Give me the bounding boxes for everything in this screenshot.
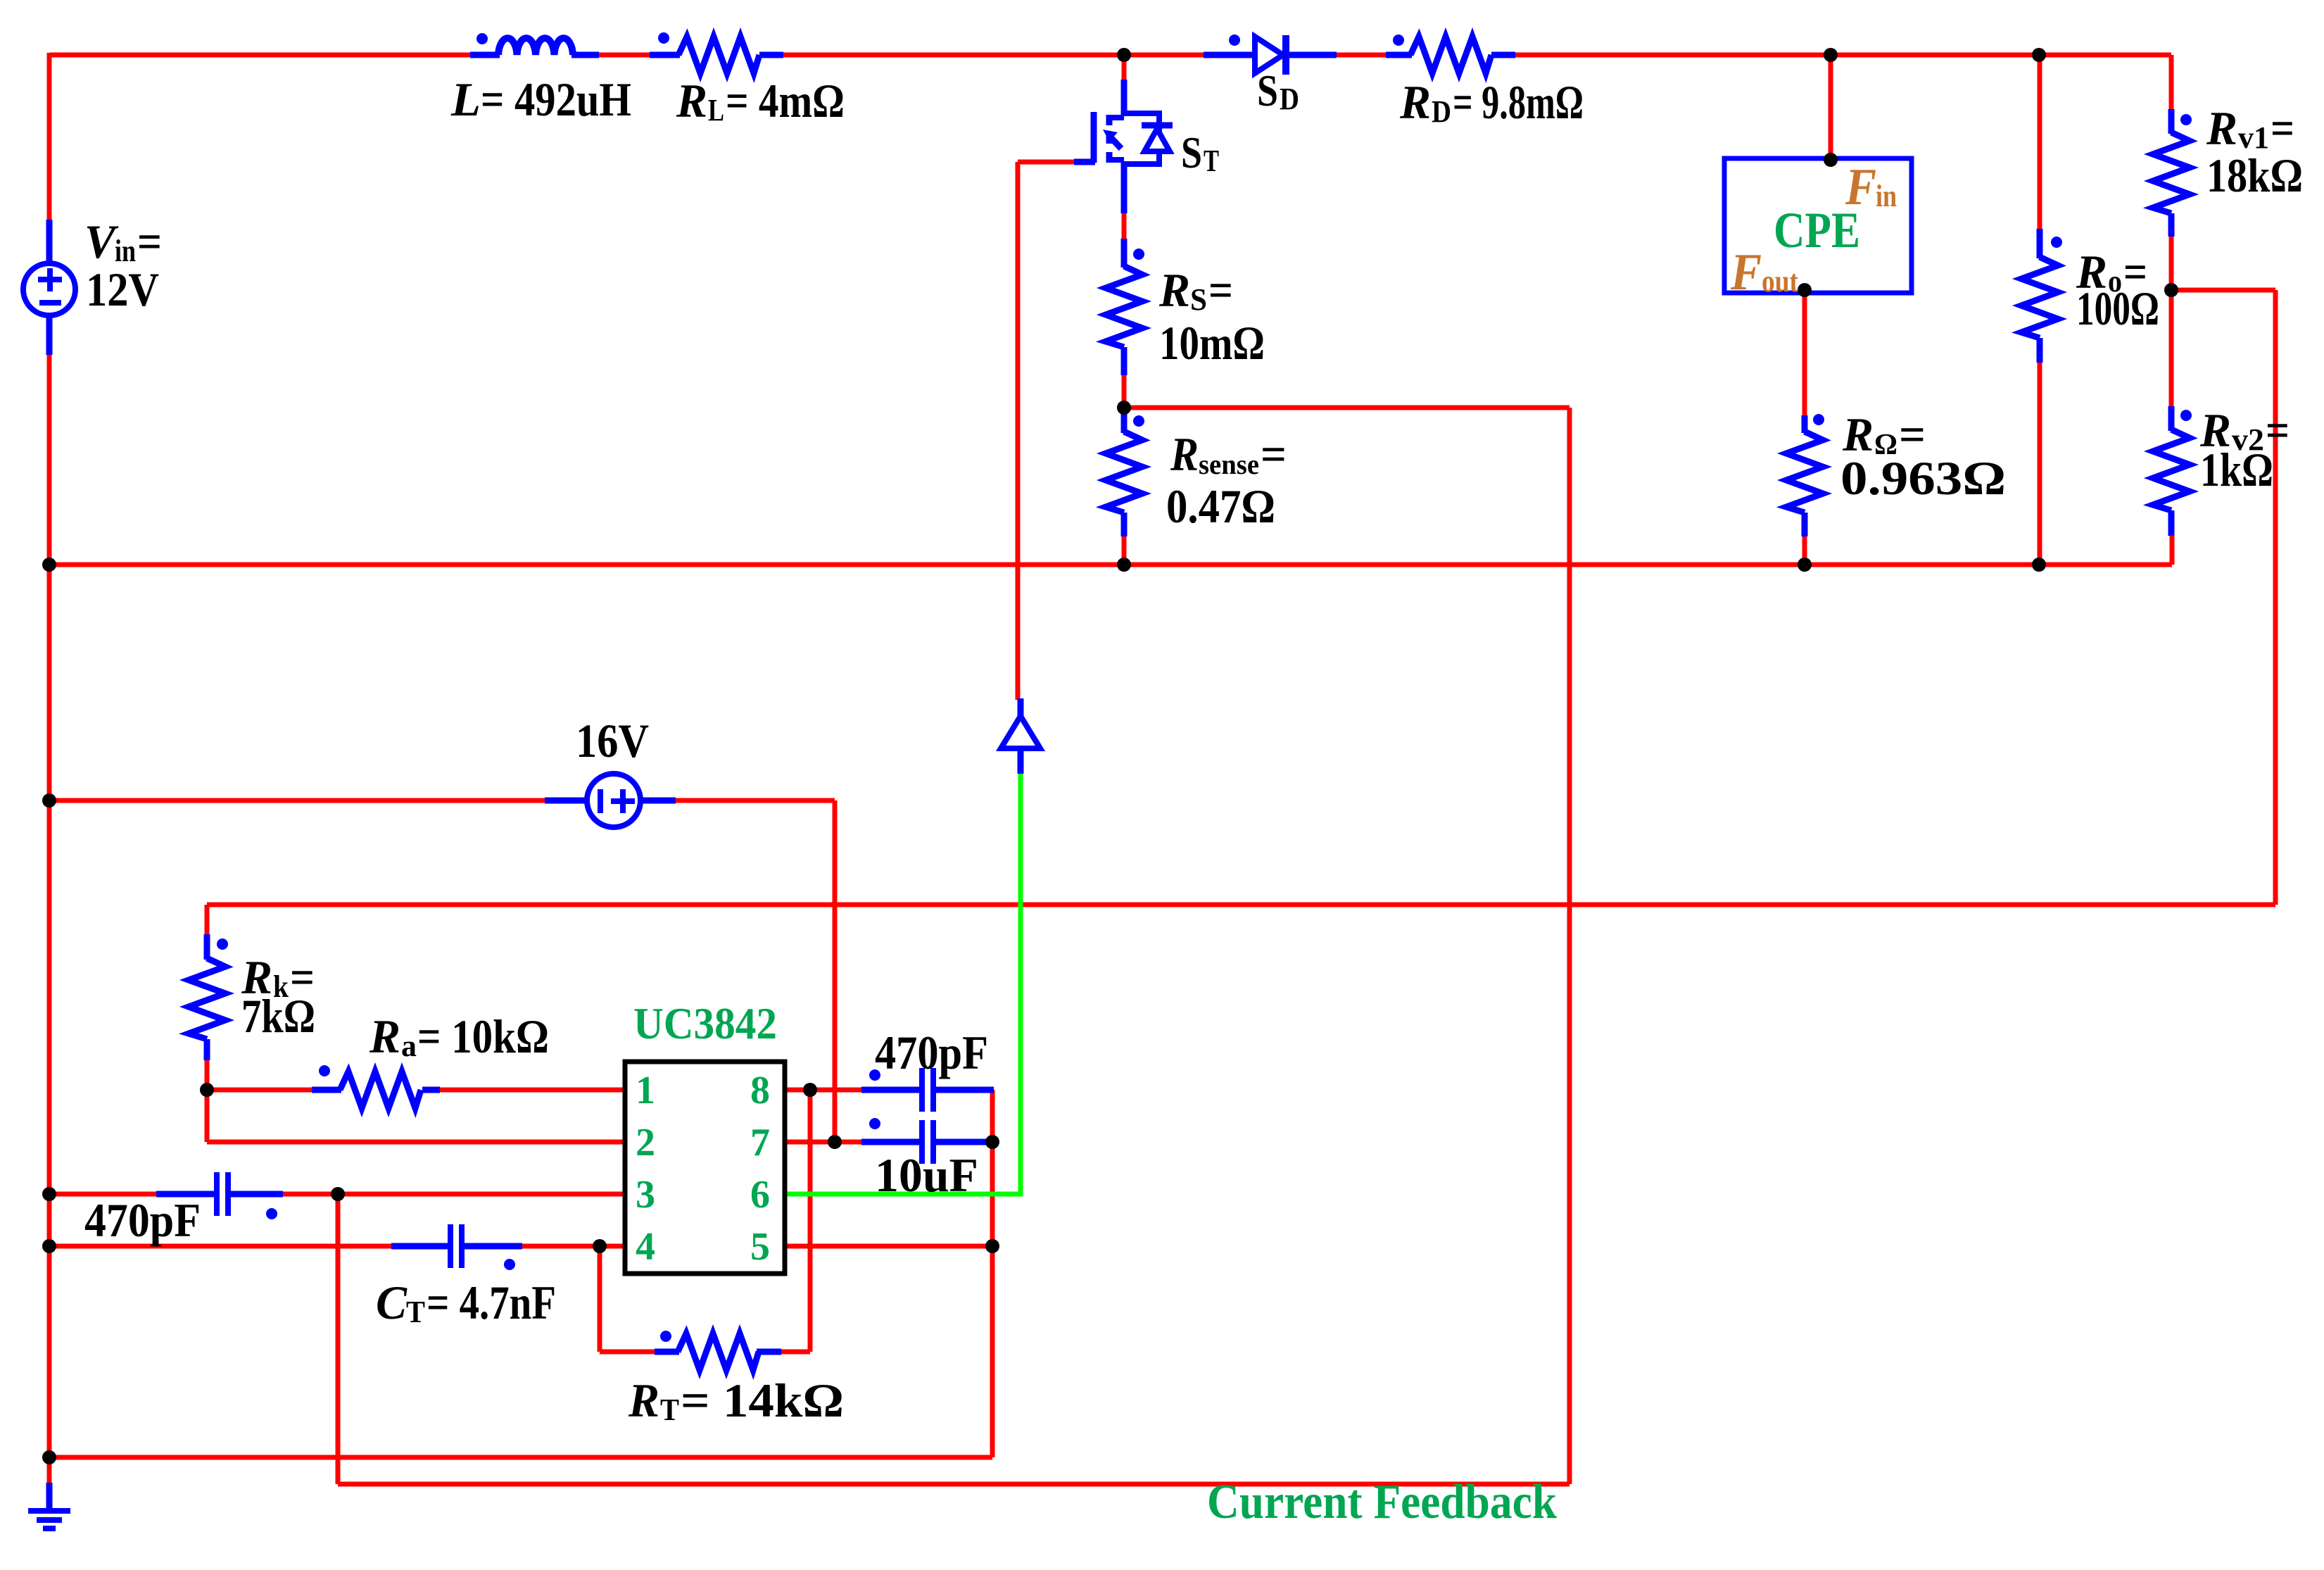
transistor ST gate bar: [1091, 112, 1097, 163]
mosfet ST drain lead: [1121, 80, 1128, 115]
wire Ra left: [207, 1088, 313, 1093]
source Vin circle: [23, 263, 75, 315]
resistor RT R_T=14kohm zigzag: [678, 1333, 759, 1370]
wire pin3 feedback drop: [336, 1194, 341, 1484]
source Vin bottom lead: [46, 314, 53, 355]
wire pin4 to RT: [598, 1246, 602, 1352]
wire gate drop: [1016, 162, 1021, 700]
wire left rail upper: [47, 53, 52, 220]
svg-text:L= 492uH: L= 492uH: [450, 73, 631, 126]
wire VCC drop: [833, 800, 838, 1142]
wire ST source to RS: [1122, 212, 1127, 240]
resistor Rv1 18kohm zigzag: [2153, 132, 2190, 213]
wire feedback long horiz: [207, 903, 2275, 908]
dot capacitor 470pF top: [869, 1069, 880, 1081]
resistor Ra R_a=10kohm zigzag: [340, 1072, 421, 1108]
svg-text:470pF: 470pF: [875, 1026, 988, 1079]
dot resistor RT: [660, 1331, 671, 1342]
resistor Romega 0.963ohm zigzag: [1786, 432, 1823, 513]
resistor RS leads: [1121, 239, 1128, 375]
resistor Rv2 leads: [2168, 406, 2175, 536]
capacitor CT leads: [391, 1243, 522, 1250]
wire ground return line: [49, 1455, 992, 1460]
wire top bus seg3: [782, 53, 1205, 58]
wire pin2 line: [207, 1140, 625, 1145]
dot resistor Rk: [217, 938, 228, 950]
inductor L=492uH arcs: [498, 38, 573, 55]
resistor Rsense leads: [1121, 412, 1128, 536]
dot capacitor 470pF left: [266, 1208, 277, 1219]
transistor ST channel dashes: [1106, 115, 1113, 163]
resistor RD leads: [1386, 52, 1515, 58]
dot resistor Ra: [319, 1065, 330, 1076]
wire pin5 line: [785, 1244, 992, 1249]
wire left rail lower: [47, 355, 52, 1486]
capacitor CT plates: [450, 1224, 462, 1268]
svg-text:16V: 16V: [576, 714, 649, 767]
transistor ST channel stubs: [1109, 118, 1124, 160]
source 16V leads: [545, 798, 676, 804]
svg-text:7kΩ: 7kΩ: [241, 989, 315, 1043]
transistor ST body diode bar: [1142, 123, 1173, 129]
mosfet ST source lead: [1121, 161, 1128, 213]
diode SD left lead: [1204, 52, 1256, 58]
wire current feedback vert: [1567, 408, 1572, 1484]
svg-text:8: 8: [750, 1069, 770, 1112]
node bottom bus / Rsense: [1117, 558, 1131, 572]
node left rail pin4 line: [42, 1239, 56, 1253]
dot resistor Rsense: [1133, 415, 1144, 427]
wire bottom bus: [49, 563, 2172, 567]
svg-text:10mΩ: 10mΩ: [1159, 316, 1265, 370]
wire current feedback bottom: [338, 1482, 1570, 1487]
node top bus / Ro: [2032, 48, 2046, 62]
svg-text:Ra= 10kΩ: Ra= 10kΩ: [369, 1010, 549, 1063]
transistor ST body diode triangle: [1144, 129, 1170, 151]
node CPE Fout: [1798, 283, 1812, 297]
node CPE Fin: [1824, 153, 1838, 167]
dot resistor Ro: [2051, 237, 2062, 248]
node Rv1/Rv2 divider: [2164, 283, 2178, 297]
wire current feedback top: [1124, 406, 1570, 410]
mosfet ST gate lead blue: [1074, 159, 1095, 165]
node pin5 ground: [985, 1239, 999, 1253]
wire feedback right vert: [2273, 290, 2278, 905]
svg-text:1: 1: [636, 1069, 655, 1112]
wire RT right red: [780, 1350, 810, 1355]
capacitor 470pF top plates: [922, 1068, 933, 1112]
dot capacitor CT: [504, 1259, 515, 1270]
svg-text:CT= 4.7nF: CT= 4.7nF: [376, 1276, 556, 1329]
resistor RL R_L=4mohm zigzag: [678, 37, 759, 73]
wire Rv1 bottom stub: [2169, 235, 2174, 290]
resistor Romega leads: [1802, 415, 1808, 536]
node 10uF right: [985, 1135, 999, 1149]
wire Ro bottom stub: [2038, 361, 2042, 565]
node top bus / ST drain: [1117, 48, 1131, 62]
wire RT left red: [600, 1350, 656, 1355]
node top bus / CPE: [1824, 48, 1838, 62]
dot resistor RS: [1133, 249, 1144, 260]
svg-text:0.963Ω: 0.963Ω: [1840, 451, 2006, 505]
capacitor 10uF plates: [922, 1120, 933, 1164]
dot resistor Rv1: [2180, 114, 2192, 125]
svg-text:470pF: 470pF: [84, 1193, 201, 1247]
svg-text:18kΩ: 18kΩ: [2206, 149, 2303, 202]
svg-text:6: 6: [750, 1173, 770, 1217]
resistor RL leads: [650, 52, 783, 58]
wire pin4 line right: [521, 1244, 625, 1249]
node pin7 VCC: [828, 1135, 842, 1149]
wire CPE to Romega: [1802, 293, 1807, 417]
ground symbol: [28, 1511, 70, 1528]
wire Rk bottom to pin2: [205, 1059, 210, 1142]
node pin4 / RT: [593, 1239, 607, 1253]
node bottom bus / Ro: [2032, 558, 2046, 572]
transistor ST body diode branch: [1124, 113, 1159, 164]
resistor Rk leads: [204, 934, 210, 1060]
wire Rk top stub: [205, 905, 210, 936]
svg-text:100Ω: 100Ω: [2076, 282, 2159, 335]
wire 16V line right: [674, 798, 835, 803]
resistor Rsense 0.47ohm zigzag: [1106, 432, 1142, 513]
wire VREF to RT: [808, 1090, 813, 1352]
wire pin8 stub: [785, 1088, 861, 1093]
resistor Ro 100ohm zigzag: [2021, 257, 2058, 338]
svg-text:1kΩ: 1kΩ: [2200, 443, 2273, 496]
dot resistor Romega: [1813, 414, 1824, 425]
wire top bus seg4: [1335, 53, 1387, 58]
node left rail 16V: [42, 793, 56, 808]
wire CPE top lead: [1829, 55, 1833, 158]
diode SD triangle: [1255, 37, 1283, 73]
resistor Ro leads: [2037, 229, 2043, 363]
node left rail pin3 line: [42, 1187, 56, 1201]
wire Rv1 top stub: [2169, 55, 2174, 111]
gate driver buffer triangle: [1001, 716, 1040, 748]
dot diode SD: [1229, 34, 1240, 46]
source 16V circle: [587, 774, 640, 827]
node left rail ground: [42, 1450, 56, 1464]
resistor Rv2 1kohm zigzag: [2153, 429, 2190, 510]
node Rk/Ra pin1: [200, 1083, 214, 1097]
wire top bus seg5: [1514, 53, 2171, 58]
node pin8 VREF: [803, 1083, 817, 1097]
wire ST drain stub: [1122, 55, 1127, 81]
wire feedback right horiz: [2171, 288, 2275, 293]
wire gate drive green from pin 6: [785, 774, 1021, 1194]
svg-text:Current Feedback: Current Feedback: [1207, 1475, 1557, 1529]
dot resistor RD: [1393, 34, 1404, 46]
node RS/Rsense current sense: [1117, 401, 1131, 415]
diode SD cathode bar: [1282, 35, 1289, 75]
capacitor 470pF left leads: [156, 1191, 283, 1198]
svg-text:0.47Ω: 0.47Ω: [1166, 479, 1275, 533]
wire pin3 line: [282, 1192, 625, 1197]
inductor L right lead: [571, 52, 599, 58]
inductor L left lead: [470, 52, 500, 58]
ground lead: [46, 1483, 53, 1511]
wire pin7 stub: [785, 1140, 861, 1145]
diode SD right lead: [1286, 52, 1337, 58]
buffer triangle bottom lead: [1018, 747, 1024, 774]
wire Ro top stub: [2038, 55, 2042, 230]
capacitor 10uF leads: [861, 1139, 994, 1145]
transistor ST arrow head: [1103, 130, 1118, 142]
node bottom bus / left rail: [42, 558, 56, 572]
svg-text:3: 3: [636, 1173, 655, 1217]
svg-text:RL= 4mΩ: RL= 4mΩ: [676, 74, 845, 127]
resistor RT leads: [655, 1349, 781, 1355]
resistor Rv1 leads: [2168, 109, 2175, 237]
node pin3 / feedback: [331, 1187, 345, 1201]
wire 16V line left: [49, 798, 546, 803]
wire Romega bottom stub: [1802, 535, 1807, 565]
source Vin plus: [38, 268, 62, 291]
dot capacitor 10uF: [869, 1118, 880, 1129]
svg-text:UC3842: UC3842: [633, 998, 777, 1048]
source Vin minus: [39, 300, 61, 306]
wire Rsense bottom stub: [1122, 535, 1127, 565]
svg-text:4: 4: [636, 1225, 655, 1269]
svg-text:10uF: 10uF: [875, 1148, 978, 1202]
capacitor 470pF top leads: [861, 1087, 994, 1093]
wire top bus seg1: [49, 53, 472, 58]
wire top bus seg2: [598, 53, 651, 58]
svg-text:7: 7: [750, 1121, 770, 1164]
wire RS to node: [1122, 374, 1127, 413]
svg-text:5: 5: [750, 1225, 770, 1269]
CPE block box: [1724, 158, 1912, 293]
dot inductor L: [476, 33, 488, 44]
buffer triangle top lead: [1018, 698, 1024, 719]
wire Rv2 top stub: [2169, 290, 2174, 408]
svg-text:2: 2: [636, 1121, 655, 1164]
wire cap470L left stub: [49, 1192, 158, 1197]
dot resistor Rv2: [2180, 410, 2192, 421]
resistor Rk 7kohm zigzag: [189, 958, 225, 1039]
wire gate horiz: [1018, 160, 1075, 165]
transistor ST arrow shaft: [1111, 137, 1121, 149]
source Vin top lead: [46, 220, 53, 265]
wire Rv2 bottom stub: [2170, 534, 2175, 565]
node bottom bus / Romega: [1798, 558, 1812, 572]
resistor Ra leads: [312, 1087, 440, 1093]
svg-text:CPE: CPE: [1774, 202, 1860, 258]
wire cap rail vert: [990, 1090, 995, 1457]
resistor RD R_D=9.8mohm zigzag: [1410, 37, 1491, 73]
svg-text:RD= 9.8mΩ: RD= 9.8mΩ: [1399, 75, 1584, 129]
op-amp U1 UC3842 box: [625, 1062, 785, 1274]
svg-text:12V: 12V: [86, 263, 159, 316]
wire pin4 line left: [49, 1244, 393, 1249]
dot resistor RL: [658, 32, 669, 44]
source 16V plus: [611, 789, 635, 813]
source 16V bar: [598, 789, 603, 813]
wire Ra right: [438, 1088, 625, 1093]
capacitor 470pF left plates: [217, 1172, 228, 1216]
resistor RS R_S=10mohm zigzag: [1106, 266, 1142, 347]
